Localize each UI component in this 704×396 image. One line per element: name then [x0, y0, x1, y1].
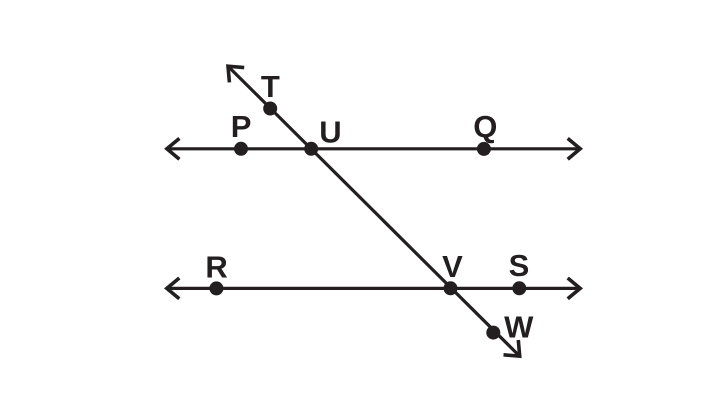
point T [263, 102, 277, 116]
svg-text:T: T [261, 69, 280, 104]
arrowhead top of transversal [228, 66, 244, 82]
arrowhead left of line RS [167, 278, 180, 299]
arrowhead right of line PQ [568, 138, 581, 159]
point S [512, 281, 526, 295]
point V [444, 281, 458, 295]
arrowhead bottom of transversal [504, 340, 520, 356]
svg-text:W: W [504, 309, 534, 344]
svg-text:S: S [509, 248, 530, 283]
arrowhead right of line RS [568, 278, 581, 299]
line RS (lower horizontal line) [167, 287, 580, 290]
point W [486, 326, 500, 340]
line PQ (upper horizontal line) [167, 147, 580, 150]
line TW (transversal) [228, 66, 520, 356]
point Q [477, 142, 491, 156]
svg-text:R: R [205, 250, 227, 285]
arrowhead left of line PQ [167, 138, 180, 159]
point R [209, 281, 223, 295]
point P [234, 142, 248, 156]
svg-text:U: U [319, 115, 341, 150]
svg-text:V: V [442, 249, 463, 284]
svg-text:P: P [231, 109, 252, 144]
point U [304, 142, 318, 156]
svg-text:Q: Q [473, 109, 497, 144]
